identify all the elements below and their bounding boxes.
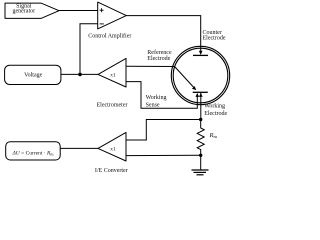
svg-text:I/E Converter: I/E Converter — [95, 168, 128, 174]
svg-text:x1: x1 — [110, 72, 116, 78]
op-amp minus sign — [100, 23, 104, 25]
resistor Rm — [197, 120, 204, 156]
counter electrode bar — [193, 54, 208, 56]
op-amp plus sign — [100, 8, 104, 12]
wire I/E converter output to delta-U box — [60, 147, 98, 149]
op-amp U2 Electrometer — [98, 58, 126, 87]
cell inner circle — [173, 48, 228, 103]
counter electrode arrowhead — [199, 51, 203, 55]
wire working electrode to measurement resistor — [200, 93, 202, 120]
wire voltage box to electrometer output — [61, 73, 98, 75]
working sense arrowhead — [196, 93, 200, 97]
cell outer circle — [171, 46, 229, 104]
working electrode bar — [193, 91, 208, 93]
wire reference electrode probe — [175, 67, 196, 90]
svg-text:Voltage: Voltage — [24, 73, 43, 79]
svg-text:Working: Working — [146, 95, 167, 101]
svg-text:ΔU = Current · Rm: ΔU = Current · Rm — [12, 150, 55, 156]
signal generator box — [5, 3, 59, 18]
wire control amplifier output to counter electrode — [126, 16, 200, 53]
working electrode arrowhead — [199, 93, 203, 97]
label Reference Electrode — [147, 49, 172, 62]
svg-text:Sense: Sense — [146, 103, 160, 109]
delta-U output box — [6, 142, 61, 160]
ground — [192, 170, 209, 175]
svg-text:Electrode: Electrode — [147, 56, 170, 62]
svg-text:Electrode: Electrode — [203, 35, 226, 41]
wire I/E converter positive input — [126, 120, 201, 141]
label Working Sense — [146, 95, 167, 108]
svg-text:Rm: Rm — [209, 132, 218, 139]
voltage box — [5, 65, 61, 84]
label Signal generator — [12, 4, 35, 15]
junction dot below resistor — [199, 154, 202, 157]
wire control amplifier inverting input feedback — [80, 24, 98, 75]
svg-text:Control Amplifier: Control Amplifier — [88, 33, 131, 40]
label Working Electrode — [204, 103, 227, 117]
label Counter Electrode — [203, 30, 226, 41]
svg-text:Electrode: Electrode — [204, 111, 227, 117]
wire I/E converter negative input — [126, 154, 201, 156]
junction dot at voltage node — [78, 73, 82, 77]
svg-text:Working: Working — [204, 103, 225, 109]
reference electrode arrowhead — [192, 86, 196, 90]
wire signal generator to control amplifier + input — [59, 10, 98, 12]
svg-text:x1: x1 — [110, 146, 116, 152]
svg-text:generator: generator — [12, 9, 35, 15]
wire working sense — [126, 82, 197, 109]
wire reference electrode to electrometer input — [126, 65, 175, 67]
junction dot above resistor — [199, 118, 202, 121]
op-amp U3 I/E Converter — [98, 132, 126, 161]
svg-text:Electrometer: Electrometer — [97, 102, 128, 108]
op-amp U1 Control Amplifier — [98, 2, 127, 29]
wire resistor to ground — [200, 155, 202, 170]
